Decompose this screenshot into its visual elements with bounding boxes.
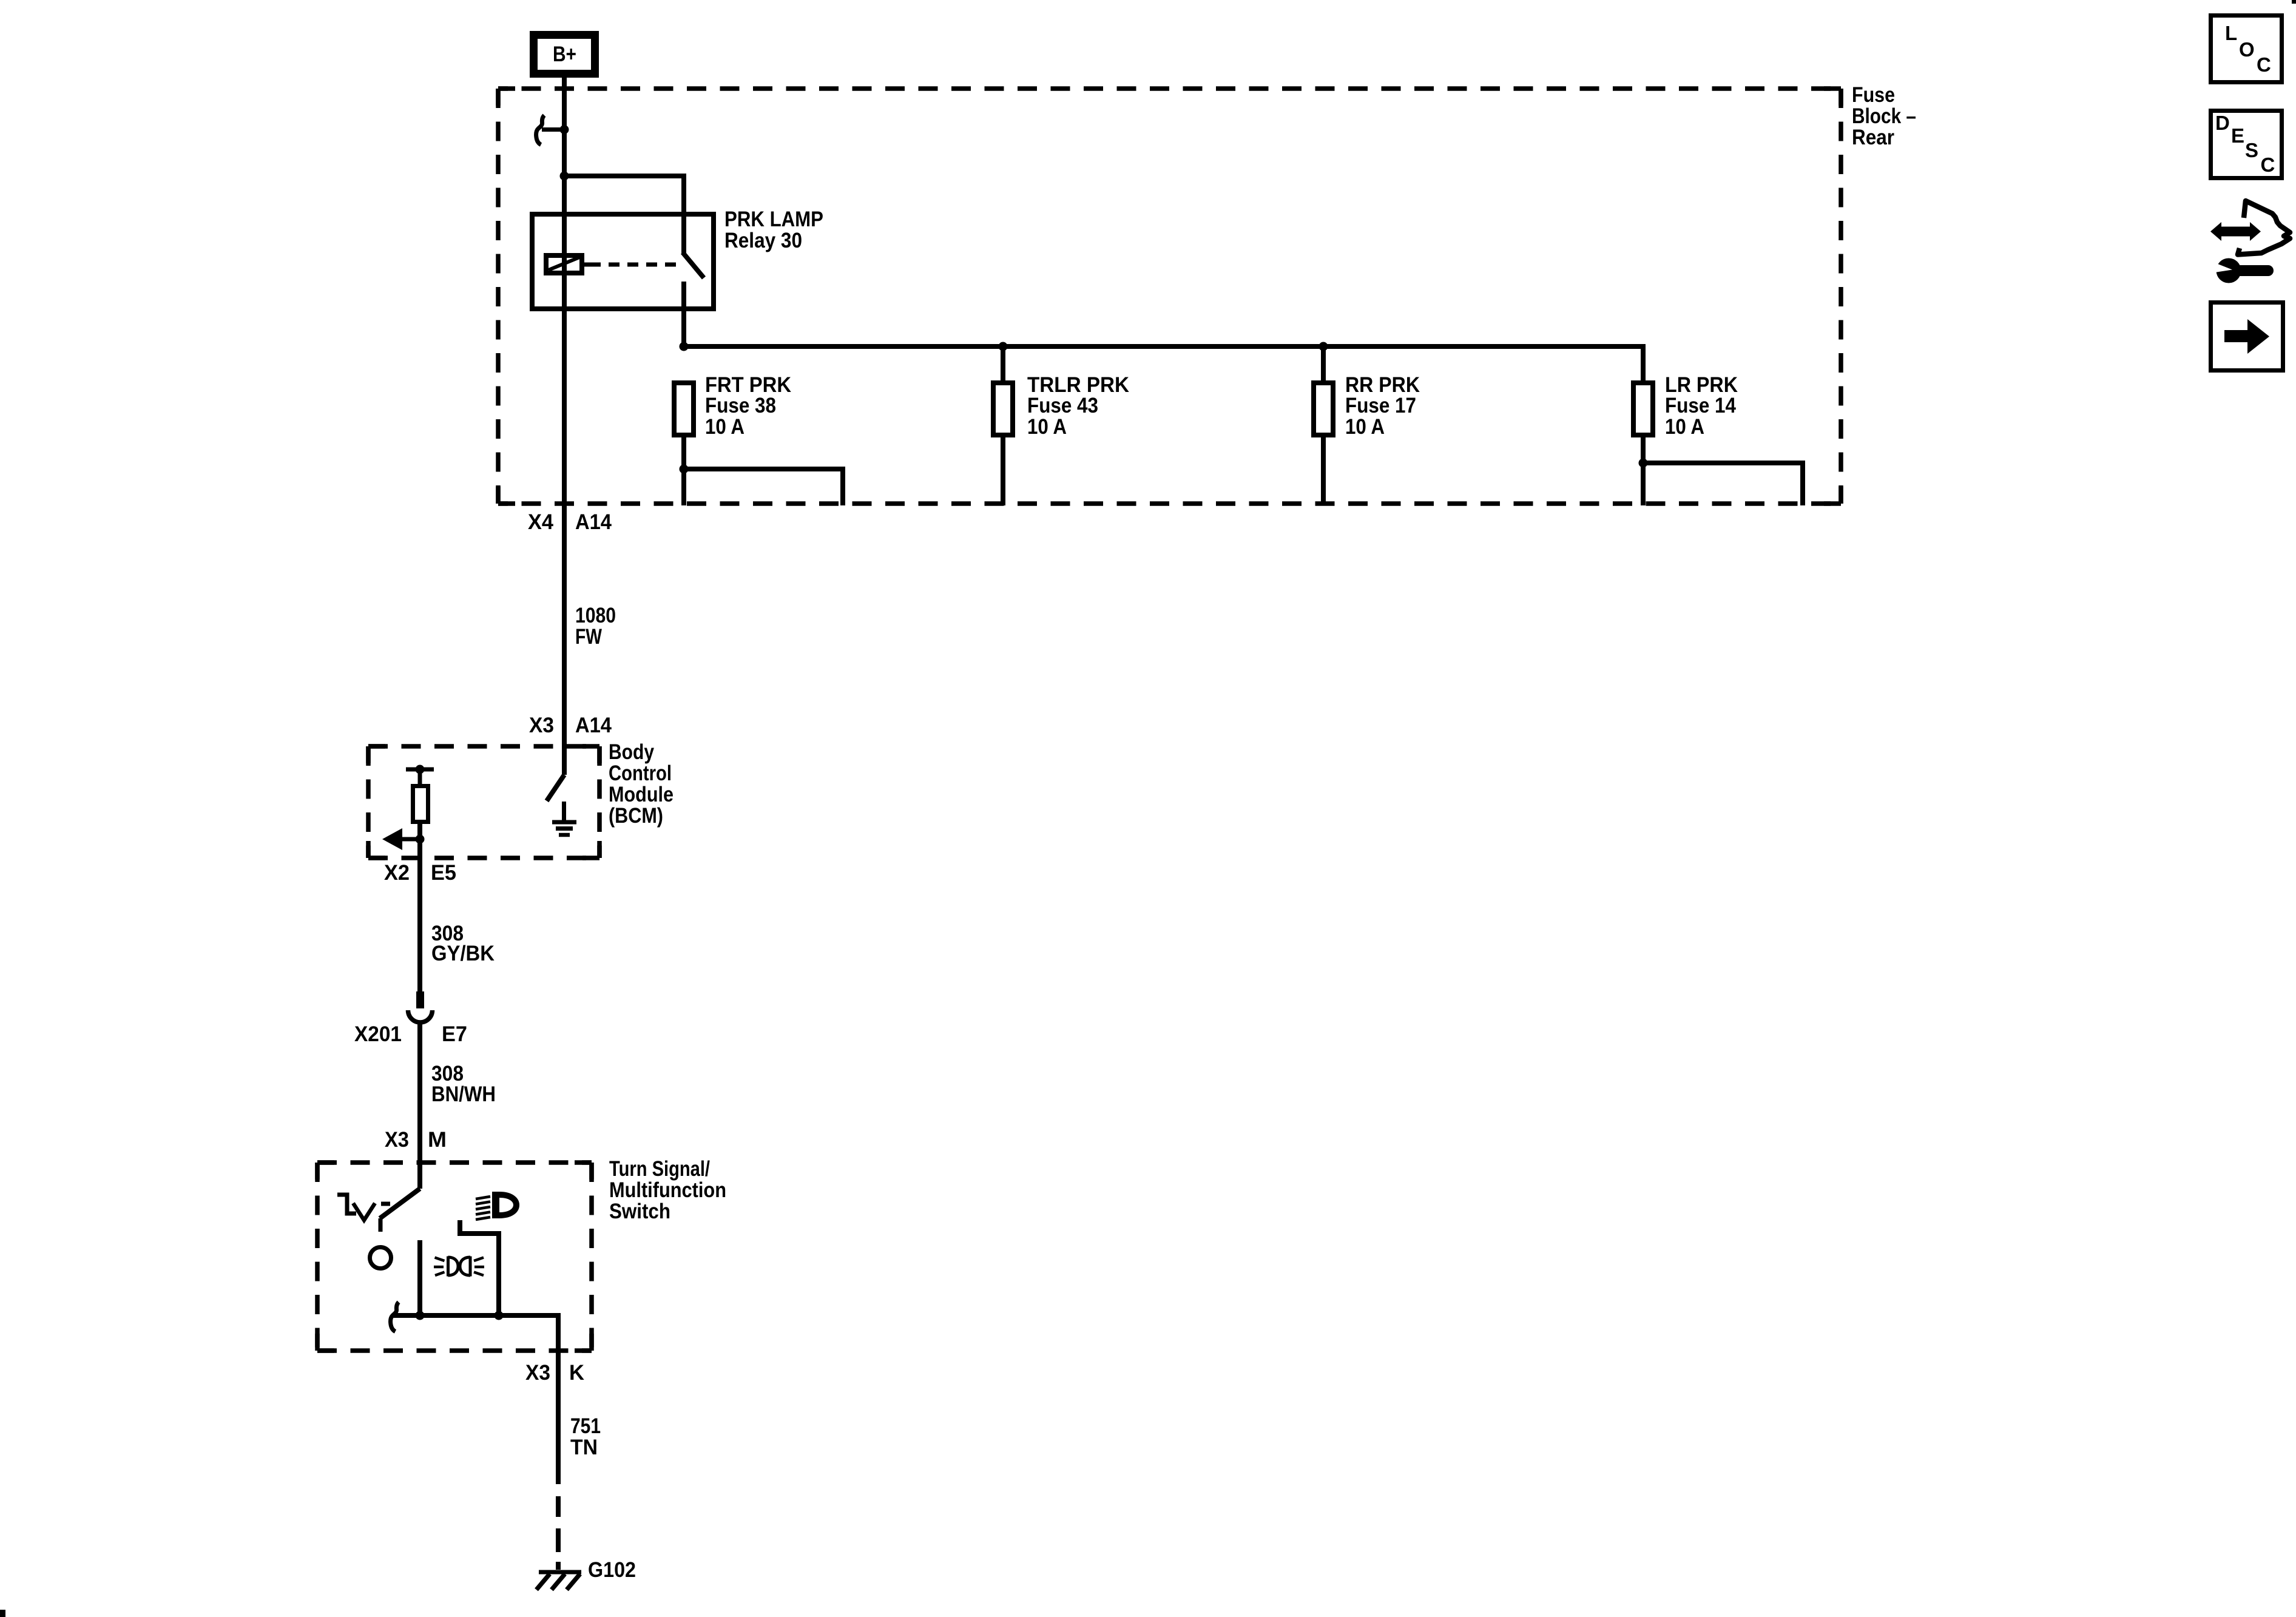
svg-text:D: D: [2215, 112, 2230, 134]
svg-text:1080: 1080: [575, 604, 616, 627]
svg-text:751: 751: [570, 1414, 601, 1438]
svg-text:A14: A14: [575, 510, 612, 534]
svg-text:E5: E5: [431, 861, 456, 885]
svg-text:X3: X3: [529, 714, 554, 737]
svg-text:Module: Module: [609, 783, 674, 806]
svg-text:X4: X4: [528, 510, 554, 534]
svg-text:Body: Body: [609, 740, 654, 764]
svg-text:M: M: [428, 1128, 447, 1152]
svg-text:S: S: [2245, 139, 2258, 161]
svg-text:K: K: [569, 1361, 584, 1385]
svg-text:Fuse: Fuse: [1852, 83, 1895, 107]
svg-text:(BCM): (BCM): [609, 804, 663, 828]
svg-text:TN: TN: [570, 1436, 598, 1459]
svg-text:Fuse 14: Fuse 14: [1665, 394, 1736, 417]
svg-text:10 A: 10 A: [1665, 415, 1704, 439]
svg-text:B+: B+: [553, 42, 576, 66]
svg-text:Control: Control: [609, 761, 672, 785]
svg-text:Rear: Rear: [1852, 126, 1894, 149]
svg-text:GY/BK: GY/BK: [431, 942, 495, 965]
svg-text:C: C: [2257, 53, 2271, 76]
svg-text:X3: X3: [385, 1128, 409, 1152]
svg-text:O: O: [2239, 38, 2255, 61]
svg-text:E7: E7: [442, 1022, 467, 1046]
svg-text:Fuse 43: Fuse 43: [1027, 394, 1098, 417]
svg-text:Block –: Block –: [1852, 104, 1916, 128]
svg-text:X201: X201: [354, 1022, 402, 1046]
svg-text:E: E: [2231, 124, 2244, 147]
svg-text:C: C: [2261, 154, 2275, 176]
svg-text:Switch: Switch: [609, 1200, 670, 1223]
svg-text:10 A: 10 A: [1345, 415, 1385, 439]
svg-text:10 A: 10 A: [1027, 415, 1067, 439]
svg-text:L: L: [2225, 22, 2237, 44]
svg-text:X3: X3: [525, 1361, 550, 1385]
svg-text:PRK LAMP: PRK LAMP: [724, 208, 823, 231]
svg-text:Multifunction: Multifunction: [609, 1178, 726, 1202]
svg-text:X2: X2: [384, 861, 410, 885]
svg-text:FW: FW: [575, 625, 602, 649]
svg-text:Relay 30: Relay 30: [724, 229, 802, 252]
svg-text:Fuse 38: Fuse 38: [705, 394, 776, 417]
svg-text:A14: A14: [575, 714, 612, 737]
svg-text:Fuse 17: Fuse 17: [1345, 394, 1416, 417]
svg-text:G102: G102: [588, 1558, 636, 1582]
svg-text:BN/WH: BN/WH: [431, 1082, 496, 1106]
svg-text:Turn Signal/: Turn Signal/: [609, 1157, 710, 1181]
svg-text:10 A: 10 A: [705, 415, 745, 439]
